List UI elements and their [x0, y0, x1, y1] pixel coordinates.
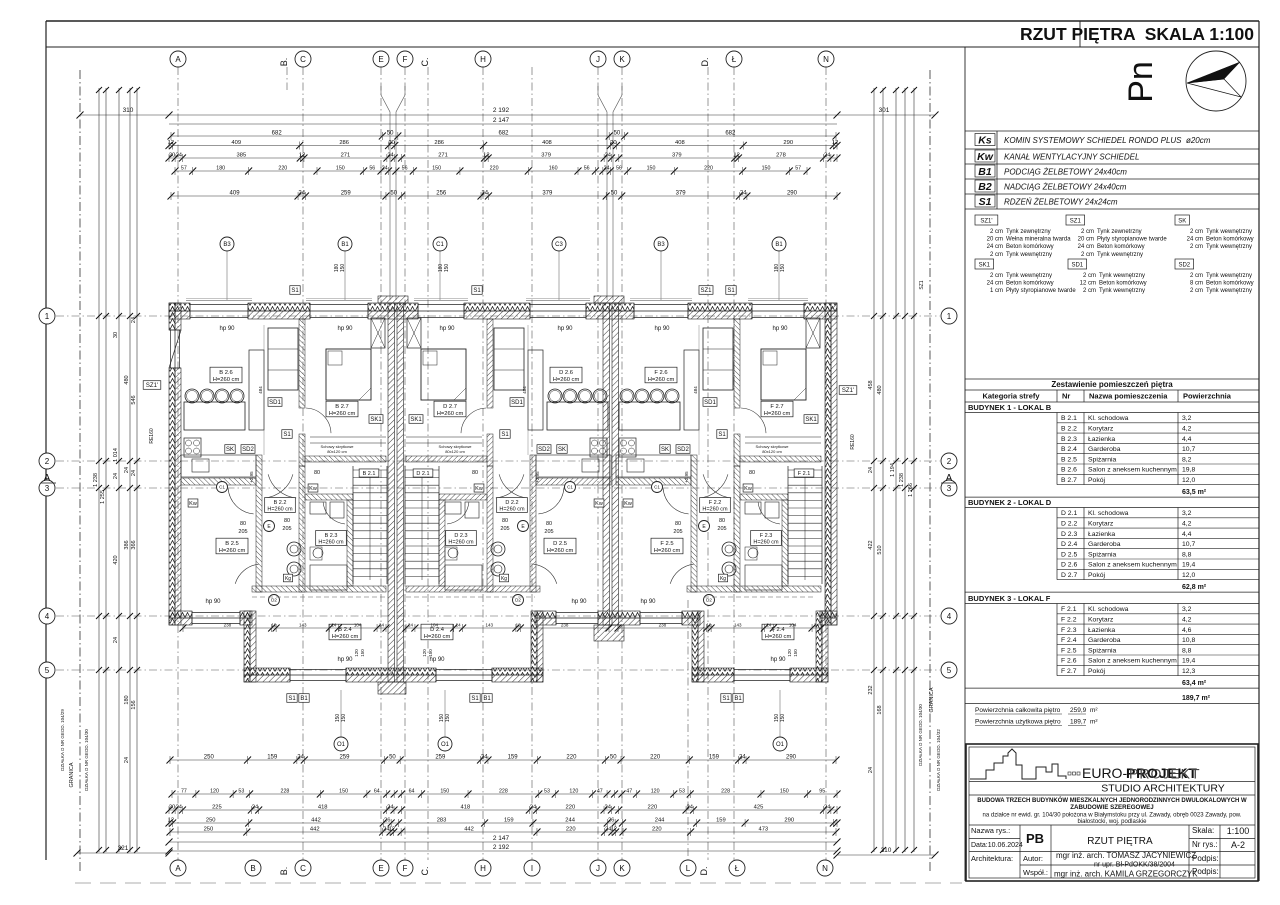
svg-text:B 2.5: B 2.5 — [225, 541, 239, 547]
svg-text:PB: PB — [1026, 831, 1044, 846]
svg-text:Ł: Ł — [735, 864, 740, 873]
svg-text:D 2.2: D 2.2 — [1061, 521, 1077, 528]
svg-text:80: 80 — [284, 518, 290, 524]
svg-text:SK: SK — [661, 447, 669, 453]
svg-text:Garderoba: Garderoba — [1088, 541, 1121, 548]
svg-text:H: H — [480, 55, 486, 64]
svg-text:442: 442 — [311, 818, 321, 824]
svg-text:S1: S1 — [283, 432, 291, 438]
svg-text:159: 159 — [709, 755, 720, 761]
svg-text:Spiżarnia: Spiżarnia — [1088, 456, 1117, 463]
svg-text:GRANICA: GRANICA — [69, 762, 75, 787]
svg-text:H=260 cm: H=260 cm — [424, 634, 451, 640]
svg-text:1 cm: 1 cm — [990, 288, 1003, 294]
svg-text:hp 90: hp 90 — [557, 326, 573, 332]
svg-text:205: 205 — [717, 526, 726, 532]
svg-text:1: 1 — [45, 312, 50, 321]
svg-text:Łazienka: Łazienka — [1088, 436, 1115, 443]
svg-text:150: 150 — [762, 166, 771, 172]
svg-text:L: L — [686, 864, 691, 873]
svg-text:250: 250 — [204, 827, 214, 833]
svg-text:53: 53 — [238, 789, 244, 795]
svg-text:B 2.7: B 2.7 — [335, 404, 349, 410]
svg-text:Kw: Kw — [744, 486, 752, 492]
svg-text:hp 90: hp 90 — [439, 326, 455, 332]
svg-text:H=260 cm: H=260 cm — [267, 507, 293, 513]
svg-text:80: 80 — [502, 518, 508, 524]
svg-text:159: 159 — [508, 755, 519, 761]
svg-text:24: 24 — [387, 153, 394, 159]
svg-text:50: 50 — [610, 755, 617, 761]
svg-text:4,4: 4,4 — [1182, 531, 1192, 538]
svg-text:nr upr. Bł-PdOKK/38/2004: nr upr. Bł-PdOKK/38/2004 — [1094, 862, 1175, 869]
svg-text:156: 156 — [131, 700, 137, 709]
svg-text:B1: B1 — [978, 166, 992, 178]
svg-text:150: 150 — [444, 264, 450, 273]
svg-text:150: 150 — [780, 264, 786, 273]
svg-text:hp 90: hp 90 — [337, 326, 353, 332]
svg-text:205: 205 — [673, 529, 682, 535]
svg-text:H=260 cm: H=260 cm — [437, 411, 464, 417]
svg-text:159: 159 — [716, 818, 726, 824]
svg-text:259: 259 — [339, 755, 350, 761]
svg-text:RDZEŃ ŻELBETOWY 24x24cm: RDZEŃ ŻELBETOWY 24x24cm — [1004, 198, 1118, 207]
svg-text:24: 24 — [387, 805, 394, 811]
svg-text:80: 80 — [546, 521, 552, 527]
svg-text:Tynk zewnętrzny: Tynk zewnętrzny — [1006, 229, 1051, 235]
svg-text:Płyty styropianowe twarde: Płyty styropianowe twarde — [1006, 288, 1076, 294]
svg-text:Tynk wewnętrzny: Tynk wewnętrzny — [1097, 252, 1143, 258]
svg-text:Pn: Pn — [1122, 61, 1160, 103]
svg-text:271: 271 — [341, 153, 351, 159]
svg-text:H=260 cm: H=260 cm — [329, 411, 356, 417]
svg-text:250: 250 — [204, 755, 215, 761]
svg-text:SK: SK — [226, 447, 234, 453]
svg-text:189,7: 189,7 — [1070, 719, 1087, 726]
svg-text:Łazienka: Łazienka — [1088, 531, 1115, 538]
svg-text:mgr inż. arch. TOMASZ JACYNIEW: mgr inż. arch. TOMASZ JACYNIEWICZ — [1056, 851, 1196, 860]
svg-text:2 192: 2 192 — [493, 107, 510, 114]
svg-text:24: 24 — [298, 191, 305, 197]
svg-text:Tynk wewnętrzny: Tynk wewnętrzny — [1006, 273, 1052, 279]
svg-text:150: 150 — [428, 649, 433, 657]
unit B furniture — [184, 402, 245, 430]
svg-text:D 2.7: D 2.7 — [443, 404, 457, 410]
svg-text:1:100: 1:100 — [1227, 826, 1250, 836]
svg-text:Salon z aneksem kuchennym: Salon z aneksem kuchennym — [1088, 658, 1177, 665]
svg-text:24: 24 — [605, 153, 612, 159]
svg-text:366: 366 — [131, 540, 137, 549]
svg-text:30: 30 — [113, 332, 119, 338]
svg-text:546: 546 — [131, 395, 137, 404]
svg-text:290: 290 — [783, 140, 793, 146]
svg-text:Autor:: Autor: — [1023, 854, 1043, 863]
svg-text:Spiżarnia: Spiżarnia — [1088, 551, 1117, 558]
svg-text:B 2.2: B 2.2 — [274, 500, 287, 506]
svg-text:20: 20 — [388, 140, 394, 146]
svg-text:SK1: SK1 — [979, 263, 991, 269]
svg-text:228: 228 — [281, 789, 290, 795]
svg-text:F 2.2: F 2.2 — [709, 500, 722, 506]
svg-text:1 266: 1 266 — [908, 483, 914, 497]
party wall 1 with chimney — [378, 296, 408, 303]
svg-text:B 2.4: B 2.4 — [1061, 446, 1077, 453]
svg-text:SD2: SD2 — [538, 447, 550, 453]
svg-text:Kw: Kw — [309, 486, 317, 492]
svg-text:F 2.6: F 2.6 — [654, 370, 667, 376]
svg-text:24: 24 — [530, 805, 537, 811]
svg-text:8 cm: 8 cm — [1190, 281, 1203, 287]
svg-text:12: 12 — [299, 153, 305, 159]
svg-text:20: 20 — [169, 153, 175, 159]
svg-text:24: 24 — [379, 623, 385, 628]
svg-text:SD1: SD1 — [1071, 263, 1083, 269]
svg-text:Tynk zewnetrzny: Tynk zewnetrzny — [1097, 229, 1142, 235]
svg-text:Architektura:: Architektura: — [971, 854, 1013, 863]
svg-text:26: 26 — [608, 818, 614, 824]
svg-text:24: 24 — [176, 153, 183, 159]
svg-text:220: 220 — [566, 827, 576, 833]
svg-text:12: 12 — [706, 623, 712, 628]
svg-text:24: 24 — [176, 805, 183, 811]
svg-text:24: 24 — [131, 317, 137, 323]
svg-text:SZ1': SZ1' — [842, 388, 854, 394]
property boundary lines — [79, 70, 81, 872]
svg-text:8,2: 8,2 — [1182, 456, 1192, 463]
svg-text:12,0: 12,0 — [1182, 572, 1195, 579]
svg-text:Kl. schodowa: Kl. schodowa — [1088, 606, 1129, 613]
svg-text:Data:10.06.2024: Data:10.06.2024 — [971, 842, 1023, 849]
svg-text:150: 150 — [780, 789, 789, 795]
svg-text:F 2.3: F 2.3 — [760, 533, 773, 539]
svg-text:Kw: Kw — [977, 151, 994, 163]
svg-text:H=260 cm: H=260 cm — [213, 377, 240, 383]
svg-text:GRANICA: GRANICA — [929, 687, 935, 712]
svg-text:A-2: A-2 — [1231, 840, 1245, 850]
svg-text:80x120 cm: 80x120 cm — [327, 449, 347, 454]
svg-text:D2: D2 — [515, 598, 521, 603]
svg-text:B1: B1 — [483, 696, 491, 702]
svg-text:D 2.7: D 2.7 — [1061, 572, 1077, 579]
svg-text:F 2.6: F 2.6 — [1061, 658, 1077, 665]
svg-text:2: 2 — [45, 457, 50, 466]
svg-text:H=260 cm: H=260 cm — [499, 507, 525, 513]
svg-text:24: 24 — [740, 191, 747, 197]
svg-text:2 cm: 2 cm — [1081, 252, 1094, 258]
svg-text:F 2.5: F 2.5 — [1061, 647, 1077, 654]
svg-text:24: 24 — [331, 623, 337, 628]
building outer walls — [169, 303, 190, 311]
svg-text:Nr rys.:: Nr rys.: — [1192, 840, 1218, 849]
svg-text:B 2.3: B 2.3 — [1061, 436, 1077, 443]
svg-text:Garderoba: Garderoba — [1088, 446, 1121, 453]
svg-text:12: 12 — [832, 140, 838, 146]
svg-text:C.: C. — [420, 867, 430, 876]
svg-text:Kg: Kg — [720, 576, 726, 582]
svg-text:H: H — [480, 864, 486, 873]
svg-text:12,0: 12,0 — [1182, 477, 1195, 484]
svg-text:+2,95: +2,95 — [535, 471, 540, 483]
svg-text:80: 80 — [749, 470, 755, 476]
svg-text:D.: D. — [699, 867, 709, 876]
svg-text:D 2.5: D 2.5 — [1061, 551, 1077, 558]
svg-text:hp 90: hp 90 — [770, 657, 786, 663]
room schedule table — [965, 378, 1259, 380]
svg-text:H=260 cm: H=260 cm — [702, 507, 728, 513]
svg-text:hp 90: hp 90 — [772, 326, 788, 332]
svg-text:12,3: 12,3 — [1182, 668, 1195, 675]
svg-text:24: 24 — [739, 755, 746, 761]
svg-text:PROJEKT: PROJEKT — [1129, 766, 1201, 782]
svg-text:290: 290 — [787, 191, 798, 197]
svg-text:50: 50 — [390, 191, 397, 197]
svg-text:S1: S1 — [473, 288, 481, 294]
svg-text:1: 1 — [947, 312, 952, 321]
svg-text:420: 420 — [113, 555, 119, 564]
svg-text:12: 12 — [483, 153, 489, 159]
svg-text:2 147: 2 147 — [493, 835, 510, 842]
svg-text:J: J — [596, 864, 600, 873]
svg-text:hp 90: hp 90 — [205, 599, 221, 605]
svg-text:D 2.6: D 2.6 — [559, 370, 573, 376]
svg-text:3,2: 3,2 — [1182, 510, 1192, 517]
svg-text:12: 12 — [271, 623, 277, 628]
svg-text:S1: S1 — [288, 696, 296, 702]
svg-text:24: 24 — [814, 623, 820, 628]
svg-text:80: 80 — [675, 521, 681, 527]
svg-text:RZUT PIĘTRA: RZUT PIĘTRA — [1087, 836, 1153, 847]
svg-text:Pokój: Pokój — [1088, 572, 1105, 579]
svg-text:F: F — [403, 55, 408, 64]
svg-text:K: K — [619, 864, 625, 873]
svg-text:473: 473 — [758, 827, 768, 833]
svg-text:10,7: 10,7 — [1182, 541, 1195, 548]
svg-text:168: 168 — [877, 705, 883, 714]
svg-text:Kw: Kw — [595, 501, 603, 507]
svg-text:510: 510 — [877, 545, 883, 554]
svg-text:250: 250 — [206, 818, 216, 824]
svg-text:STUDIO ARCHITEKTURY: STUDIO ARCHITEKTURY — [1101, 783, 1225, 795]
svg-text:278: 278 — [776, 153, 786, 159]
svg-text:3,2: 3,2 — [1182, 606, 1192, 613]
svg-text:205: 205 — [544, 529, 553, 535]
svg-text:Powierzchnia użytkowa piętro: Powierzchnia użytkowa piętro — [975, 719, 1061, 726]
svg-text:Nazwa pomieszczenia: Nazwa pomieszczenia — [1089, 392, 1168, 401]
svg-text:24: 24 — [124, 467, 130, 473]
svg-text:hp 90: hp 90 — [571, 599, 587, 605]
svg-text:24 cm: 24 cm — [1187, 237, 1203, 243]
svg-text:Beton komórkowy: Beton komórkowy — [1206, 237, 1254, 243]
svg-text:Tynk wewnętrzny: Tynk wewnętrzny — [1099, 273, 1145, 279]
svg-text:O1: O1 — [337, 742, 346, 748]
svg-text:24: 24 — [113, 473, 119, 479]
svg-text:H=260 cm: H=260 cm — [219, 548, 246, 554]
svg-text:S1: S1 — [291, 288, 299, 294]
svg-text:259: 259 — [341, 191, 352, 197]
svg-text:D 2.4: D 2.4 — [1061, 541, 1077, 548]
svg-text:220: 220 — [566, 755, 577, 761]
svg-text:120: 120 — [787, 649, 792, 657]
svg-text:H=260 cm: H=260 cm — [448, 540, 474, 546]
svg-text:24: 24 — [481, 191, 488, 197]
svg-text:64: 64 — [409, 789, 415, 795]
svg-text:53: 53 — [544, 789, 550, 795]
svg-text:Podpis:: Podpis: — [1192, 854, 1219, 863]
svg-text:442: 442 — [464, 827, 474, 833]
svg-text:19,8: 19,8 — [1182, 467, 1195, 474]
svg-text:120: 120 — [210, 789, 219, 795]
svg-text:63,5 m²: 63,5 m² — [1182, 489, 1207, 496]
party wall 2 with chimney — [594, 296, 624, 303]
svg-text:271: 271 — [438, 153, 448, 159]
svg-text:SD2: SD2 — [677, 447, 689, 453]
svg-text:BUDYNEK 1 - LOKAL B: BUDYNEK 1 - LOKAL B — [968, 403, 1052, 412]
svg-text:Podpis:: Podpis: — [1192, 867, 1219, 876]
svg-text:425: 425 — [754, 805, 764, 811]
svg-text:80: 80 — [314, 470, 320, 476]
svg-text:S1: S1 — [727, 288, 735, 294]
right dimension chains — [873, 88, 875, 852]
svg-text:F 2.4: F 2.4 — [1061, 637, 1077, 644]
svg-text:mgr inż. arch. KAMILA GRZEGORC: mgr inż. arch. KAMILA GRZEGORCZYK — [1054, 870, 1198, 879]
svg-text:SK: SK — [558, 447, 566, 453]
bottom grid axes — [170, 860, 186, 876]
svg-text:D 2.5: D 2.5 — [553, 541, 567, 547]
svg-text:O1: O1 — [776, 742, 785, 748]
svg-text:24 cm: 24 cm — [987, 244, 1003, 250]
svg-text:Współ.:: Współ.: — [1023, 868, 1048, 877]
svg-text:Korytarz: Korytarz — [1088, 426, 1114, 433]
svg-text:480: 480 — [124, 375, 130, 384]
svg-text:10,7: 10,7 — [1182, 446, 1195, 453]
svg-text:238: 238 — [224, 623, 232, 628]
svg-text:C1: C1 — [436, 242, 444, 248]
svg-text:F: F — [403, 864, 408, 873]
svg-text:379: 379 — [542, 191, 553, 197]
svg-text:24: 24 — [824, 153, 831, 159]
svg-text:F 2.1: F 2.1 — [798, 471, 811, 477]
svg-text:120: 120 — [422, 649, 427, 657]
svg-text:422: 422 — [868, 540, 874, 549]
svg-text:220: 220 — [652, 827, 662, 833]
svg-text:24: 24 — [456, 623, 462, 628]
svg-text:Beton komórkowy: Beton komórkowy — [1097, 244, 1145, 250]
svg-text:Korytarz: Korytarz — [1088, 617, 1114, 624]
svg-text:Beton komórkowy: Beton komórkowy — [1099, 281, 1147, 287]
svg-text:SK1: SK1 — [805, 417, 817, 423]
svg-text:O1: O1 — [441, 742, 450, 748]
svg-text:B 2.1: B 2.1 — [363, 471, 376, 477]
svg-text:50: 50 — [387, 131, 394, 137]
svg-text:NADCIĄG ŻELBETOWY 24x40cm: NADCIĄG ŻELBETOWY 24x40cm — [1004, 183, 1127, 192]
beam marker circles bottom — [340, 690, 342, 737]
unit D interior walls (mirrored) — [406, 319, 611, 592]
svg-text:D 2.6: D 2.6 — [1061, 562, 1077, 569]
svg-text:50: 50 — [614, 131, 621, 137]
svg-text:B1: B1 — [775, 242, 783, 248]
svg-text:24: 24 — [113, 637, 119, 643]
svg-text:m²: m² — [1090, 719, 1098, 726]
svg-text:K: K — [619, 55, 625, 64]
svg-text:Salon z aneksem kuchennym: Salon z aneksem kuchennym — [1088, 562, 1177, 569]
svg-text:50: 50 — [389, 755, 396, 761]
svg-text:A: A — [44, 473, 51, 484]
svg-text:1 014: 1 014 — [113, 448, 119, 462]
svg-text:D 2.3: D 2.3 — [1061, 531, 1077, 538]
svg-text:Kl. schodowa: Kl. schodowa — [1088, 415, 1129, 422]
svg-text:B 2.6: B 2.6 — [1061, 467, 1077, 474]
svg-text:C1: C1 — [654, 485, 660, 490]
svg-text:228: 228 — [499, 789, 508, 795]
unit F furniture — [619, 402, 680, 430]
svg-text:64: 64 — [374, 789, 380, 795]
svg-text:5: 5 — [947, 666, 952, 675]
svg-text:SD1: SD1 — [704, 400, 716, 406]
svg-text:B3: B3 — [657, 242, 665, 248]
svg-text:220: 220 — [278, 166, 287, 172]
svg-text:1 255: 1 255 — [100, 490, 106, 504]
svg-text:D2: D2 — [706, 598, 712, 603]
svg-text:53: 53 — [679, 789, 685, 795]
svg-text:220: 220 — [704, 166, 713, 172]
svg-text:SZ1: SZ1 — [919, 280, 925, 289]
svg-text:321: 321 — [118, 845, 129, 852]
svg-text:m²: m² — [1090, 707, 1098, 714]
svg-text:DZIAŁKA O NR GEOD. 104/32: DZIAŁKA O NR GEOD. 104/32 — [936, 729, 941, 791]
svg-text:418: 418 — [318, 805, 328, 811]
svg-text:H=260 cm: H=260 cm — [547, 548, 574, 554]
svg-text:Wełna mineralna twarda: Wełna mineralna twarda — [1006, 237, 1071, 243]
svg-text:150: 150 — [336, 166, 345, 172]
svg-text:301: 301 — [879, 107, 890, 114]
svg-text:hp 90: hp 90 — [429, 657, 445, 663]
svg-text:1 194: 1 194 — [890, 463, 896, 477]
svg-text:379: 379 — [672, 153, 682, 159]
svg-text:180: 180 — [216, 166, 225, 172]
svg-text:10,8: 10,8 — [1182, 637, 1195, 644]
svg-text:409: 409 — [230, 191, 241, 197]
svg-text:418: 418 — [461, 805, 471, 811]
svg-text:Tynk wewnętrzny: Tynk wewnętrzny — [1206, 244, 1252, 250]
svg-text:2 192: 2 192 — [493, 844, 510, 851]
svg-text:442: 442 — [310, 827, 320, 833]
svg-text:484: 484 — [258, 386, 263, 394]
vertical grid axes — [177, 67, 179, 860]
svg-text:4,2: 4,2 — [1182, 521, 1192, 528]
svg-text:Zestawienie pomieszczeń piętra: Zestawienie pomieszczeń piętra — [1051, 380, 1173, 389]
svg-text:12: 12 — [611, 827, 617, 833]
svg-text:24: 24 — [604, 805, 611, 811]
svg-text:12: 12 — [389, 827, 395, 833]
svg-text:386: 386 — [124, 540, 130, 549]
svg-text:Pokój: Pokój — [1088, 477, 1105, 484]
svg-text:24: 24 — [868, 467, 874, 473]
svg-text:B.: B. — [279, 58, 289, 67]
svg-text:A: A — [175, 55, 181, 64]
svg-text:220: 220 — [566, 805, 576, 811]
svg-text:24: 24 — [252, 805, 259, 811]
svg-text:259: 259 — [435, 755, 446, 761]
svg-text:310: 310 — [123, 107, 134, 114]
svg-text:220: 220 — [490, 166, 499, 172]
svg-text:150: 150 — [432, 166, 441, 172]
svg-text:DZIAŁKA O NR GEOD. 104/30: DZIAŁKA O NR GEOD. 104/30 — [84, 729, 89, 791]
svg-text:259,9: 259,9 — [1070, 707, 1087, 714]
svg-text:225: 225 — [212, 805, 222, 811]
svg-text:SZ1': SZ1' — [980, 219, 992, 225]
svg-text:4,6: 4,6 — [1182, 627, 1192, 634]
svg-text:Skala:: Skala: — [1192, 826, 1214, 835]
